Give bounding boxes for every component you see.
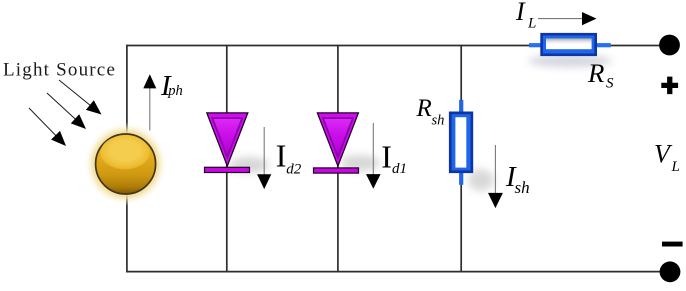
sun highlight <box>101 136 150 170</box>
light ray arrow 1 <box>59 80 92 106</box>
light source sun <box>96 134 156 194</box>
svg-text:d2: d2 <box>286 162 302 178</box>
Iph current arrow <box>149 88 151 131</box>
shadow of resistor RS <box>528 55 612 67</box>
svg-text:sh: sh <box>432 112 445 128</box>
wire: left vertical (light source branch) <box>126 45 128 273</box>
resistor Rsh <box>449 100 473 185</box>
svg-text:Light Source: Light Source <box>3 60 116 81</box>
wire: diode D1 branch vertical <box>337 45 339 273</box>
light ray arrow 3 <box>29 108 57 136</box>
svg-text:R: R <box>587 58 604 88</box>
light source glow <box>84 122 168 206</box>
svg-text:ph: ph <box>167 83 183 99</box>
svg-text:R: R <box>416 95 432 122</box>
svg-text:L: L <box>671 159 680 175</box>
wire: bottom horizontal <box>126 271 665 273</box>
light ray arrow 2 <box>47 93 76 120</box>
svg-text:I: I <box>515 0 526 26</box>
wire: top horizontal (right of RS to + terminal) <box>611 45 664 47</box>
svg-text:d1: d1 <box>392 161 407 177</box>
plus sign <box>661 77 678 95</box>
terminal - node <box>660 261 681 282</box>
Id1 current arrow <box>372 123 374 175</box>
svg-text:sh: sh <box>515 178 530 197</box>
diode D2 <box>205 113 250 173</box>
terminal + node <box>659 35 680 56</box>
diode D1 <box>314 113 359 173</box>
wire: top horizontal (left of RS) <box>126 45 529 47</box>
svg-text:S: S <box>606 76 614 92</box>
wire: diode D2 branch vertical <box>226 45 228 273</box>
svg-text:L: L <box>527 16 536 32</box>
svg-text:I: I <box>276 137 287 173</box>
svg-text:V: V <box>654 140 673 169</box>
shadow of resistor Rsh <box>468 169 494 191</box>
shadow of diode D2 <box>229 157 269 173</box>
minus sign <box>662 242 683 247</box>
Ish current arrow <box>494 145 496 194</box>
IL current arrow <box>538 18 583 20</box>
wire: Rsh branch vertical <box>460 45 462 273</box>
svg-text:I: I <box>381 139 392 175</box>
shadow of diode D1 <box>340 155 380 171</box>
Id2 current arrow <box>263 127 265 175</box>
resistor RS <box>529 33 611 56</box>
